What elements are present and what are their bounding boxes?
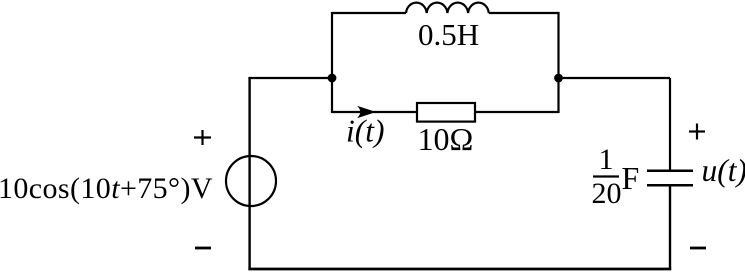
svg-text:1: 1 bbox=[599, 143, 614, 176]
label: − polarity of source bbox=[195, 247, 211, 250]
current reference arrow for i(t) bbox=[357, 106, 376, 118]
svg-text:F: F bbox=[622, 160, 640, 196]
svg-text:i(t): i(t) bbox=[346, 114, 384, 149]
capacitor C1 top plate bbox=[647, 170, 693, 173]
wire: top-right segment and right loop vertical bbox=[489, 13, 559, 113]
node A (left junction dot) bbox=[328, 74, 337, 83]
wire: capacitor bottom lead bbox=[669, 186, 671, 270]
node B (right junction dot) bbox=[554, 74, 563, 83]
wire: bottom return bbox=[248, 268, 671, 271]
label: + polarity of source bbox=[194, 136, 211, 138]
wire: left loop vertical and top-left segment bbox=[332, 13, 406, 113]
label: − polarity of capacitor voltage bbox=[690, 247, 706, 250]
wire: resistor branch right segment bbox=[475, 111, 559, 113]
inductor L1 (0.5H), 4 humps bbox=[406, 3, 489, 13]
wire: resistor branch left segment bbox=[332, 111, 417, 113]
label: + polarity of capacitor voltage bbox=[689, 130, 705, 132]
svg-text:u(t): u(t) bbox=[702, 153, 745, 188]
svg-text:10cos(10t+75°)V: 10cos(10t+75°)V bbox=[0, 172, 213, 205]
voltage source VS circle bbox=[226, 156, 276, 206]
resistor R1 body (10 ohm) bbox=[417, 103, 475, 122]
wire: node B to capacitor branch horizontal bbox=[559, 77, 671, 79]
capacitor C1 bottom plate bbox=[647, 184, 693, 187]
svg-text:10Ω: 10Ω bbox=[418, 121, 474, 157]
wire: source to left node horizontal bbox=[248, 77, 332, 79]
svg-text:0.5H: 0.5H bbox=[418, 17, 479, 52]
svg-text:20: 20 bbox=[592, 177, 622, 210]
wire: left branch vertical through source bbox=[248, 78, 250, 270]
label: fraction bar of 1/20 bbox=[593, 175, 619, 177]
wire: capacitor top lead bbox=[669, 78, 671, 170]
